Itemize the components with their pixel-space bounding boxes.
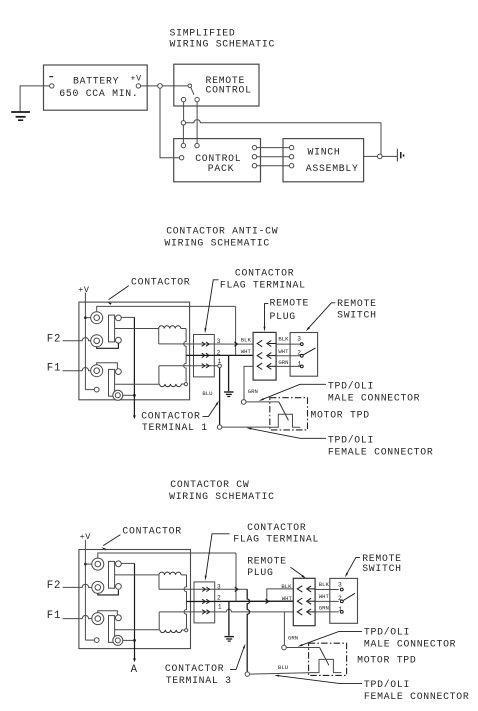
coil junction drop (hops rows) <box>184 329 186 382</box>
tap node on left wire <box>181 121 185 125</box>
lower coil (cw) <box>159 612 184 633</box>
svg-text:WINCH: WINCH <box>308 147 341 158</box>
flag chevrons row 3 <box>202 342 209 346</box>
arrowhead terminal 1 wire <box>133 415 136 419</box>
wire F1 (cw, hop) <box>63 615 92 618</box>
svg-text:1: 1 <box>218 604 222 611</box>
title: contactor cw wiring schematic <box>169 479 275 502</box>
svg-text:BLK: BLK <box>278 336 289 343</box>
label CONTACTOR (cw) <box>122 525 181 536</box>
leader to flag box (cw) <box>205 534 230 581</box>
remote control contact left <box>181 97 185 101</box>
wire terminal A to drop (cw) <box>123 639 134 641</box>
svg-text:GRN: GRN <box>288 634 298 641</box>
svg-text:CONTROL: CONTROL <box>206 85 252 96</box>
label F2 <box>47 333 61 345</box>
wire remote left contact down <box>183 102 185 121</box>
TPD/OLI male connector (cw) <box>282 645 287 650</box>
arrowhead terminal A wire <box>133 658 136 662</box>
wire battery minus to ground <box>20 86 49 112</box>
label CONTACTOR (anti-cw) <box>131 276 190 287</box>
flag chevrons row 1 (cw) <box>202 610 209 614</box>
label BLU (anti-cw) <box>202 390 212 397</box>
remote control switch arm <box>191 88 194 95</box>
wire upper contact to terminal-1 drop <box>121 316 134 318</box>
svg-text:FEMALE CONNECTOR: FEMALE CONNECTOR <box>364 691 470 702</box>
upper contact bottom (cw) <box>116 584 122 590</box>
wire plug to switch BLK <box>276 343 300 345</box>
svg-text:ASSEMBLY: ASSEMBLY <box>306 163 359 174</box>
leader to male connector <box>259 384 326 401</box>
svg-text:WIRING SCHEMATIC: WIRING SCHEMATIC <box>170 39 276 50</box>
wire plug to switch GRN <box>276 365 300 367</box>
contactor box (cw) <box>79 550 191 649</box>
label BLK right (cw) <box>319 581 330 588</box>
svg-text:WHT: WHT <box>282 595 293 602</box>
wire F2 (cw, hop) <box>63 584 92 587</box>
svg-text:BLU: BLU <box>202 390 212 397</box>
svg-text:3: 3 <box>297 335 301 342</box>
svg-text:TPD/OLI: TPD/OLI <box>328 434 374 445</box>
svg-text:650 CCA MIN.: 650 CCA MIN. <box>59 88 138 99</box>
BLU wire female connector to tpd (cw) <box>250 673 309 674</box>
switch arm (cw) <box>343 593 355 600</box>
wire plug to switch WHT <box>276 355 300 357</box>
upper contact point bottom <box>116 337 122 343</box>
flag pin numbers <box>217 338 222 365</box>
TPD/OLI female wire (anti-cw) <box>222 426 270 428</box>
label tpd/oli female (cw) <box>364 679 470 702</box>
label motor tpd (cw) <box>357 654 416 665</box>
lower coil right node (cw) <box>185 629 188 632</box>
control pack terminal top-right <box>195 143 199 147</box>
plug column drop (cw) <box>235 553 237 601</box>
switch pin numbers (cw) <box>338 582 342 613</box>
winch input terminals <box>289 145 293 167</box>
label GRN (cw) <box>288 634 298 641</box>
svg-text:CONTACTOR ANTI-CW: CONTACTOR ANTI-CW <box>166 226 278 237</box>
wire F1 up to lower contact (cw) <box>98 611 118 615</box>
wire WHT row 2 (cw) <box>187 600 294 602</box>
svg-text:BLK: BLK <box>241 336 252 343</box>
svg-text:REMOTE: REMOTE <box>362 553 402 564</box>
svg-text:SWITCH: SWITCH <box>337 310 377 321</box>
wire plug to switch WHT (cw) <box>315 600 339 602</box>
winch assembly label <box>306 147 359 174</box>
flag chevrons row 2 <box>202 353 209 357</box>
svg-text:REMOTE: REMOTE <box>247 556 287 567</box>
wire F2 (hop over +V line) <box>63 338 91 341</box>
label contactor terminal 1 <box>141 411 208 433</box>
switch contact 1 (cw) <box>340 611 343 614</box>
wire plug to switch GRN (cw) <box>315 611 339 613</box>
wire contact bar to lower coil <box>115 383 159 385</box>
wire F2 to fixed contact <box>97 343 119 348</box>
leader to switch box <box>306 303 336 331</box>
svg-text:GRN: GRN <box>319 604 329 611</box>
+V supply line (cw) <box>84 540 86 640</box>
contactor terminal F2 <box>91 335 103 347</box>
remote switch box (anti-cw) <box>290 333 318 377</box>
svg-text:3: 3 <box>217 583 221 590</box>
svg-text:FLAG TERMINAL: FLAG TERMINAL <box>220 280 306 291</box>
label remote switch (cw) <box>362 553 402 574</box>
svg-text:BLK: BLK <box>281 583 292 590</box>
svg-text:MALE CONNECTOR: MALE CONNECTOR <box>364 638 456 649</box>
switch contact 2 <box>300 354 303 357</box>
svg-text:TPD/OLI: TPD/OLI <box>328 380 374 391</box>
tpd element (anti-cw) <box>270 414 301 427</box>
leader to female wire <box>246 428 326 439</box>
chassis ground (winch) <box>397 149 403 162</box>
label tpd/oli female (anti-cw) <box>328 434 434 457</box>
label contactor terminal 3 <box>165 663 232 686</box>
TPD/OLI female connector (cw) <box>245 672 249 676</box>
leader to contactor box (cw) <box>101 535 120 551</box>
svg-text:CONTACTOR: CONTACTOR <box>122 525 181 536</box>
wire bar to lower coil (cw) <box>115 629 160 631</box>
contactor terminal top (cw) <box>92 558 104 570</box>
label GRN right (anti-cw) <box>278 359 288 366</box>
svg-text:PLUG: PLUG <box>247 567 273 578</box>
battery minus terminal <box>49 77 54 89</box>
leader to plug box <box>264 304 269 332</box>
svg-text:MALE CONNECTOR: MALE CONNECTOR <box>328 392 420 403</box>
svg-text:TPD/OLI: TPD/OLI <box>364 627 410 638</box>
junction dot +V to terminal <box>84 316 91 319</box>
wire coil bottom / flag row 3 (BLK) <box>159 343 253 345</box>
junction chevron on row 3 <box>234 342 237 346</box>
ground branch from WHT row <box>228 355 230 391</box>
label GRN (anti-cw) <box>248 388 258 395</box>
remote plug box (anti-cw) <box>253 332 276 380</box>
junction dot bottom terminal (cw) <box>133 639 136 642</box>
+V supply line <box>84 293 86 390</box>
flag terminal box (anti-cw) <box>194 335 215 377</box>
upper contact bar <box>109 315 115 342</box>
wire F1 (hop over +V line) <box>63 368 91 371</box>
svg-text:CONTACTOR CW: CONTACTOR CW <box>170 479 249 490</box>
label A (terminal) <box>131 664 138 676</box>
flag pin numbers (cw) <box>217 583 222 610</box>
label contactor flag terminal (anti-cw) <box>220 267 306 290</box>
wire control pack to winch 1 <box>257 147 290 149</box>
winch assembly box <box>283 139 364 182</box>
label F1 (cw) <box>47 610 61 622</box>
label BLK right (anti-cw) <box>278 336 289 343</box>
svg-text:SWITCH: SWITCH <box>362 563 402 574</box>
switch contact 2 (cw) <box>340 600 343 603</box>
junction dot +V (cw) <box>84 563 92 566</box>
remote control switch pivot <box>188 84 192 88</box>
plug BLK drop (cw) <box>267 589 294 600</box>
wire control pack to winch 2 <box>257 156 290 158</box>
contactor terminal A (cw) <box>113 635 123 645</box>
svg-text:SIMPLIFIED: SIMPLIFIED <box>170 28 236 39</box>
svg-text:GRN: GRN <box>278 359 288 366</box>
svg-text:F2: F2 <box>47 333 61 345</box>
label tpd/oli male (cw) <box>364 627 456 650</box>
earth ground (battery) <box>11 112 30 120</box>
lower coil (anti-cw) <box>159 366 184 387</box>
lower coil right end node <box>184 383 187 386</box>
tpd actuator diagonal <box>279 402 289 421</box>
wire male connector into motor tpd <box>246 401 279 403</box>
battery label <box>59 75 138 99</box>
wire lower coil top / flag row 1 <box>159 365 218 367</box>
svg-text:+V: +V <box>78 285 90 295</box>
title: simplified wiring schematic <box>170 28 276 50</box>
junction dot at bottom terminal <box>133 394 136 397</box>
wire F1 up to lower contact <box>97 363 118 369</box>
wire contact to terminal drop (cw) <box>121 562 134 564</box>
label motor tpd (anti-cw) <box>310 410 369 421</box>
wire WHT row 2 (anti-cw) <box>186 354 253 356</box>
lower contact top (cw) <box>116 615 122 621</box>
svg-text:GRN: GRN <box>248 388 258 395</box>
coil junction drop (cw) <box>184 575 186 628</box>
flag row 1 node <box>218 364 222 368</box>
svg-text:TPD/OLI: TPD/OLI <box>364 679 410 690</box>
svg-text:FLAG TERMINAL: FLAG TERMINAL <box>233 533 319 544</box>
wire male connector into motor tpd (cw) <box>286 647 319 649</box>
wire tap to winch ground (long horizontal) <box>186 120 381 123</box>
svg-text:FEMALE CONNECTOR: FEMALE CONNECTOR <box>328 446 434 457</box>
leader to switch box (cw) <box>345 557 360 577</box>
upper contact bar (cw) <box>109 561 115 588</box>
svg-text:REMOTE: REMOTE <box>337 298 377 309</box>
label WHT left (cw) <box>282 595 293 602</box>
control pack label <box>195 153 241 174</box>
wire coil bottom / flag row 3 (cw) <box>159 588 247 590</box>
svg-text:3: 3 <box>217 338 221 345</box>
remote control box <box>174 64 259 106</box>
wire bar to upper coil (cw) <box>115 574 159 576</box>
label F1 <box>47 362 61 374</box>
junction chevron on row 3 (cw) <box>235 587 238 591</box>
upper contact point top <box>116 315 122 321</box>
wire node to chassis ground <box>382 155 397 157</box>
plug sockets left (cw) <box>297 586 302 615</box>
top wire to plug column (cw) <box>98 553 236 558</box>
title: contactor anti-cw wiring schematic <box>164 226 278 249</box>
wire winch to ground node <box>364 155 378 157</box>
plug pins right <box>267 341 276 370</box>
control pack output terminals <box>252 145 256 167</box>
svg-text:CONTACTOR: CONTACTOR <box>141 411 200 422</box>
wire flag row3 to female connector (cw) <box>247 589 249 672</box>
flag chevrons row 2 (cw) <box>202 599 209 603</box>
label BLK left (cw) <box>281 583 292 590</box>
TPD/OLI male connector (anti-cw) <box>241 400 246 405</box>
remote control label <box>206 75 252 96</box>
wire row1 node down to female wire <box>219 368 221 425</box>
upper contact top (cw) <box>116 561 122 567</box>
svg-text:PLUG: PLUG <box>270 311 296 322</box>
svg-text:CONTACTOR: CONTACTOR <box>235 267 294 278</box>
control pack terminal left <box>179 156 183 160</box>
flag terminal box (cw) <box>194 582 215 623</box>
wire node to remote control <box>162 85 188 87</box>
plug pins right (cw) <box>307 586 315 615</box>
TPD/OLI female connector (anti-cw) <box>217 425 221 429</box>
aux terminal (cw) <box>94 638 99 643</box>
wire control pack to winch 3 <box>257 165 290 167</box>
switch contact 3 <box>300 343 303 346</box>
leader to terminal 1 wire <box>203 401 220 417</box>
wire F2 to fixed contact (cw) <box>98 590 119 595</box>
label F2 (cw) <box>47 580 61 592</box>
earth ground (flag area) <box>224 392 233 397</box>
plug sockets left <box>257 340 262 369</box>
contactor terminal top (+V) <box>91 312 103 324</box>
earth ground (cw flag area) <box>225 637 234 642</box>
svg-text:2: 2 <box>217 595 221 602</box>
label BLK left (anti-cw) <box>241 336 252 343</box>
switch contact 3 (cw) <box>340 588 343 591</box>
svg-text:F1: F1 <box>47 362 61 374</box>
control pack box <box>174 139 261 182</box>
remote switch box (cw) <box>330 578 358 623</box>
svg-text:MOTOR TPD: MOTOR TPD <box>310 410 369 421</box>
wire +V to aux terminal (cw) <box>85 639 94 641</box>
terminal-A drop wire (cw) <box>134 563 136 659</box>
label WHT left (anti-cw) <box>241 348 252 355</box>
wire down to winch ground node <box>380 123 382 154</box>
switch arm (anti-cw) <box>303 348 315 355</box>
leader to male connector (cw) <box>298 631 362 646</box>
svg-text:WIRING SCHEMATIC: WIRING SCHEMATIC <box>169 491 275 502</box>
flag chevrons row 1 <box>202 364 209 368</box>
battery B1 box <box>44 65 148 110</box>
node junction at +V rail <box>158 84 163 89</box>
svg-text:REMOTE: REMOTE <box>270 298 310 309</box>
tpd actuator diagonal (cw) <box>320 648 329 666</box>
winch ground node <box>378 154 383 159</box>
wire battery +V to node <box>141 85 158 87</box>
lower contact bar (cw) <box>109 616 115 643</box>
svg-text:CONTACTOR: CONTACTOR <box>165 663 224 674</box>
switch contact 1 <box>300 365 303 368</box>
GRN branch to male connector (cw) <box>283 612 285 645</box>
wire lower coil top / flag row 1 (cw) <box>159 609 293 612</box>
remote control contact right <box>195 97 199 101</box>
battery +V terminal <box>130 74 142 89</box>
remote plug box (cw) <box>293 578 315 625</box>
wire +V to aux terminal <box>85 389 94 391</box>
label BLU (cw) <box>278 664 288 671</box>
leader to flag box <box>205 280 219 333</box>
tpd element (cw) <box>309 659 342 672</box>
junction chevron on WHT row (cw) <box>266 599 269 603</box>
contactor terminal 1 (bottom, double) <box>113 390 123 400</box>
svg-text:CONTACTOR: CONTACTOR <box>247 522 306 533</box>
plug column drop <box>235 306 237 355</box>
aux terminal (bottom left) <box>94 387 99 392</box>
svg-text:+V: +V <box>130 74 142 84</box>
leader to plug box (cw) <box>291 567 307 578</box>
svg-text:F1: F1 <box>47 610 61 622</box>
svg-text:CONTACTOR: CONTACTOR <box>131 276 190 287</box>
upper coil (cw) <box>159 572 187 589</box>
ground branch (cw) <box>228 602 230 636</box>
flag chevrons row 3 (cw) <box>202 587 209 591</box>
wire bottom terminal to drop <box>123 394 133 396</box>
leader to contactor box <box>107 286 129 305</box>
terminal-1 drop wire <box>133 317 135 416</box>
wire contact bar to upper coil <box>115 328 159 330</box>
switch pin numbers (anti-cw) <box>297 335 301 367</box>
svg-text:TERMINAL 3: TERMINAL 3 <box>166 675 232 686</box>
leader to terminal 3 wire <box>230 644 245 670</box>
svg-text:TERMINAL 1: TERMINAL 1 <box>142 422 208 433</box>
label GRN right (cw) <box>319 604 329 611</box>
label +V (cw) <box>80 532 92 542</box>
label +V (anti-cw) <box>78 285 90 295</box>
upper coil (anti-cw) <box>159 326 186 344</box>
contactor box (anti-cw) <box>79 302 190 400</box>
svg-text:BATTERY: BATTERY <box>73 75 119 86</box>
wire +V rail to control pack <box>160 88 179 158</box>
wire remote right contact down <box>196 102 198 144</box>
svg-text:WHT: WHT <box>319 593 330 600</box>
leader to female wire (cw) <box>274 675 362 684</box>
motor tpd box (anti-cw) <box>270 398 308 430</box>
label remote plug (cw) <box>247 556 287 578</box>
motor tpd box (cw) <box>309 643 347 675</box>
svg-text:WHT: WHT <box>278 348 289 355</box>
label WHT right (anti-cw) <box>278 348 289 355</box>
svg-text:3: 3 <box>338 582 342 589</box>
label remote switch (anti-cw) <box>337 298 377 320</box>
lower contact point top <box>116 369 122 375</box>
svg-text:F2: F2 <box>47 580 61 592</box>
svg-text:A: A <box>131 664 138 676</box>
svg-text:WIRING SCHEMATIC: WIRING SCHEMATIC <box>164 237 270 248</box>
wire tap to control pack <box>182 125 184 143</box>
lower contact bar <box>109 369 115 396</box>
svg-text:PACK: PACK <box>208 163 234 174</box>
top wire terminal to plug column <box>97 306 236 311</box>
svg-text:MOTOR TPD: MOTOR TPD <box>357 654 416 665</box>
svg-text:BLU: BLU <box>278 664 288 671</box>
svg-text:WHT: WHT <box>241 348 252 355</box>
contactor terminal F1 (cw) <box>92 613 104 625</box>
contactor terminal F1 <box>91 365 103 377</box>
label contactor flag terminal (cw) <box>233 522 319 545</box>
svg-text:BLK: BLK <box>319 581 330 588</box>
label remote plug (anti-cw) <box>270 298 310 322</box>
contactor terminal F2 (cw) <box>92 581 104 593</box>
label tpd/oli male (anti-cw) <box>328 380 420 403</box>
wire plug to switch BLK (cw) <box>315 589 339 591</box>
GRN wire plug to male connector <box>244 366 253 399</box>
label WHT right (cw) <box>319 593 330 600</box>
control pack terminal top-left <box>181 143 185 147</box>
